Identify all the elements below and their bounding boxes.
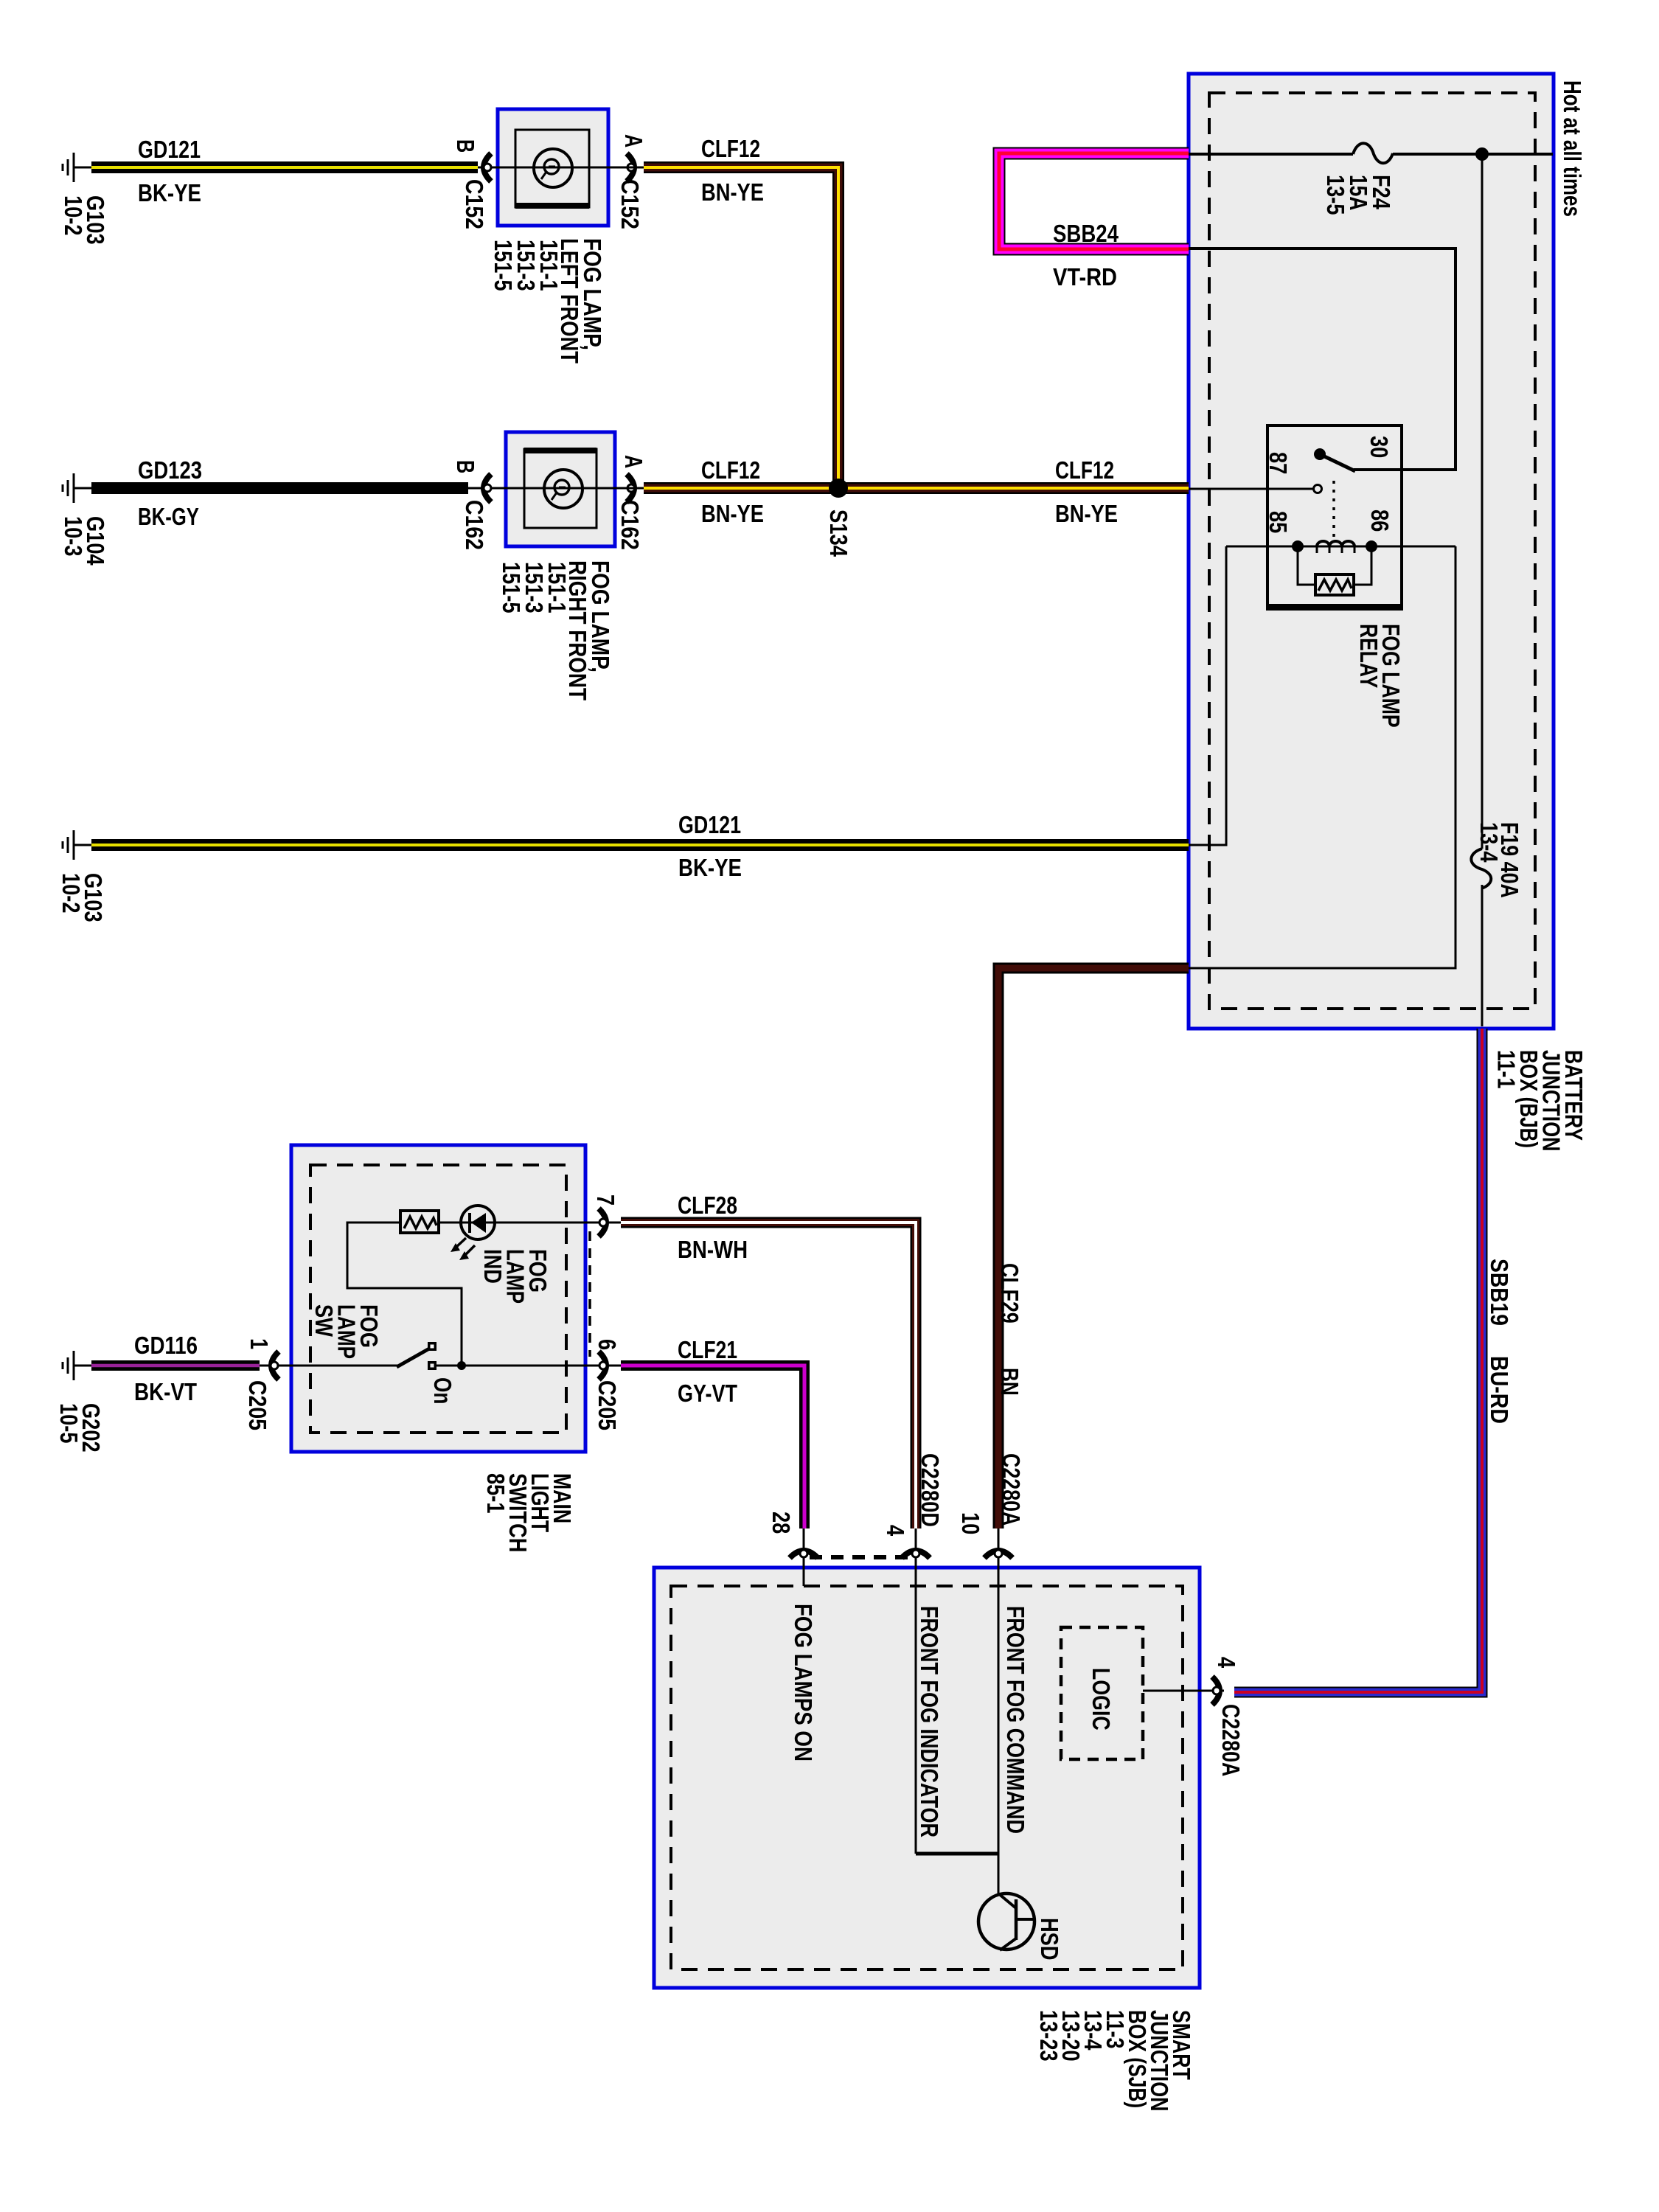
pin 1 lead and arrow	[260, 1365, 291, 1367]
svg-text:6: 6	[594, 1339, 621, 1350]
svg-text:B: B	[452, 460, 479, 473]
svg-text:BN-YE: BN-YE	[701, 178, 764, 206]
SJB pin 28 lead and arrow	[803, 1528, 805, 1586]
relay coil	[1317, 541, 1354, 546]
dashed connector line C205	[588, 1231, 591, 1357]
connector arrow B C162	[484, 474, 491, 502]
transistor HSD	[978, 1893, 1034, 1950]
svg-text:CLF12: CLF12	[701, 456, 760, 484]
connector arrow A C152	[627, 153, 634, 181]
svg-text:Hot at all times: Hot at all times	[1559, 80, 1586, 217]
wire thin lead at connector B C152	[478, 167, 498, 169]
svg-text:HSD: HSD	[1036, 1918, 1063, 1961]
ground G103 (top left)	[63, 153, 91, 182]
junction node in BJB	[1475, 147, 1489, 161]
lamp symbol left front	[534, 149, 572, 187]
svg-text:C162: C162	[616, 500, 644, 550]
ground G103 (third row)	[63, 830, 91, 860]
svg-text:151-1151-3151-5: 151-1151-3151-5	[498, 562, 571, 613]
svg-text:C162: C162	[461, 500, 488, 550]
svg-text:BN-YE: BN-YE	[701, 500, 764, 527]
svg-text:CLF12: CLF12	[1055, 456, 1114, 484]
svg-text:GD121: GD121	[138, 136, 201, 163]
SJB inner dashed border	[671, 1586, 1183, 1969]
svg-text:FOG LAMPS ON: FOG LAMPS ON	[790, 1604, 817, 1761]
svg-text:VT-RD: VT-RD	[1053, 263, 1117, 291]
main light switch box outline	[291, 1145, 585, 1452]
svg-text:FRONT FOG INDICATOR: FRONT FOG INDICATOR	[916, 1606, 943, 1837]
svg-text:On: On	[429, 1377, 456, 1404]
wire SBB24 VT-RD loop	[999, 153, 1189, 249]
svg-text:FOG LAMP,LEFT FRONT: FOG LAMP,LEFT FRONT	[556, 238, 606, 364]
battery junction box (BJB) outline	[1189, 74, 1554, 1029]
svg-text:C2280D: C2280D	[917, 1453, 944, 1527]
fog lamp left front inner square	[515, 130, 589, 207]
SJB pin 4 lead and arrow	[915, 1528, 917, 1854]
fuse F19 symbol	[1471, 849, 1491, 888]
svg-text:BN: BN	[996, 1368, 1023, 1396]
SBB24 line inside BJB to relay pin 30	[1189, 248, 1455, 470]
fog lamp switch pivot	[428, 1342, 437, 1351]
wire GD121 BK-YE (long, to BJB)	[91, 839, 1189, 851]
SJB pin 10 lead and arrow	[998, 1528, 1000, 1893]
svg-text:BK-YE: BK-YE	[138, 179, 201, 206]
svg-text:4: 4	[882, 1525, 909, 1537]
splice S134	[829, 479, 848, 498]
svg-text:10: 10	[957, 1512, 984, 1534]
svg-text:BN-YE: BN-YE	[1055, 500, 1118, 527]
wire GD123 BK-GY	[91, 482, 468, 494]
wire CLF28 BN-WH	[621, 1222, 916, 1528]
svg-text:SBB24: SBB24	[1053, 220, 1119, 247]
wire thin lead at connector B C162	[468, 487, 506, 490]
svg-text:CLF29: CLF29	[996, 1263, 1023, 1324]
svg-text:BK-YE: BK-YE	[678, 854, 742, 881]
fog lamp relay box	[1267, 425, 1402, 609]
main light switch inner dashed border	[310, 1165, 566, 1433]
relay suppression resistor wiring	[1298, 546, 1371, 585]
svg-text:S134: S134	[825, 509, 852, 557]
svg-text:SBB19: SBB19	[1486, 1259, 1513, 1326]
ground G202	[63, 1351, 91, 1380]
svg-text:4: 4	[1213, 1657, 1240, 1669]
LOGIC output line to pin 4	[1143, 1690, 1224, 1692]
fog lamp switch output line	[437, 1365, 585, 1367]
svg-text:BK-GY: BK-GY	[138, 503, 199, 530]
fog lamp right front inner square	[524, 449, 597, 528]
pin 6 lead and arrow	[585, 1365, 621, 1367]
relay coil junction dots	[1292, 540, 1304, 552]
svg-text:1: 1	[246, 1338, 273, 1349]
relay switch pivot	[1314, 448, 1326, 460]
relay actuator dotted line	[1332, 481, 1335, 540]
wire CLF29 BN from BJB to SJB	[998, 968, 1189, 1528]
wire SBB19 BU-RD from BJB to SJB pin 4	[1234, 1029, 1482, 1692]
svg-text:CLF28: CLF28	[678, 1192, 737, 1219]
svg-text:BN-WH: BN-WH	[678, 1236, 748, 1263]
lamp symbol right front	[544, 470, 582, 508]
fog lamp sw indicator loop wire	[347, 1222, 462, 1366]
svg-text:GY-VT: GY-VT	[678, 1380, 737, 1407]
svg-text:LOGIC: LOGIC	[1088, 1668, 1115, 1731]
wire through left fog lamp	[498, 167, 609, 169]
connector arrow B C152	[484, 153, 491, 181]
fog lamp switch blade	[397, 1348, 431, 1367]
front fog indicator to command link	[916, 1852, 998, 1856]
fog lamp ind LED	[461, 1206, 495, 1239]
fog lamp left front box	[498, 109, 608, 226]
relay suppression resistor	[1315, 574, 1354, 595]
svg-text:B: B	[452, 139, 479, 153]
svg-text:151-1151-3151-5: 151-1151-3151-5	[490, 240, 563, 291]
wire GD116 BK-VT	[91, 1360, 260, 1371]
svg-text:A: A	[620, 134, 647, 147]
LOGIC dashed box	[1061, 1627, 1143, 1759]
fog lamp right front box	[506, 432, 615, 546]
svg-text:C205: C205	[594, 1380, 621, 1430]
svg-text:GD121: GD121	[678, 811, 741, 838]
fuse F24 circuit line	[1189, 153, 1553, 156]
wire CLF12 BN-YE from A C162 to BJB	[644, 482, 1189, 494]
svg-text:C152: C152	[461, 179, 488, 229]
fog lamp ind resistor	[400, 1211, 439, 1233]
svg-text:86: 86	[1366, 509, 1394, 532]
pin 7 lead and arrow	[585, 1222, 621, 1224]
fog lamp switch input line	[291, 1365, 398, 1367]
relay contact 87	[1314, 485, 1322, 493]
svg-text:30: 30	[1366, 436, 1393, 458]
svg-text:BU-RD: BU-RD	[1486, 1356, 1513, 1424]
relay coil line pins 85-86	[1226, 546, 1455, 548]
relay switch blade	[1320, 454, 1355, 471]
wire through right fog lamp	[506, 487, 615, 490]
svg-text:BK-VT: BK-VT	[134, 1378, 197, 1405]
fuse F19 circuit line	[1481, 154, 1484, 1026]
svg-text:CLF12: CLF12	[701, 135, 760, 162]
wire CLF12 BN-YE from A C152 down to S134	[644, 167, 838, 481]
svg-text:GD116: GD116	[134, 1332, 198, 1359]
ground G104 (second row)	[63, 473, 91, 503]
svg-text:A: A	[620, 455, 647, 468]
connector arrow A C162	[627, 474, 634, 502]
pin 85 line to GD121	[1189, 546, 1226, 845]
fog lamp switch On contact	[428, 1361, 437, 1370]
svg-text:85: 85	[1265, 511, 1292, 533]
svg-text:28: 28	[768, 1512, 795, 1534]
wire GD121 BK-YE (top left)	[91, 161, 478, 173]
svg-text:FRONT FOG COMMAND: FRONT FOG COMMAND	[1002, 1606, 1029, 1834]
fuse F24 symbol	[1353, 143, 1393, 163]
dashed connector line C2280	[810, 1555, 910, 1559]
junction dot switch/indicator	[457, 1361, 466, 1370]
pin 86 line to CLF29	[1189, 546, 1455, 968]
svg-text:C2280A: C2280A	[1217, 1704, 1245, 1776]
svg-text:F2415A13-5: F2415A13-5	[1322, 175, 1395, 215]
svg-text:C2280A: C2280A	[998, 1453, 1025, 1526]
svg-text:87: 87	[1265, 452, 1292, 474]
svg-text:CLF21: CLF21	[678, 1336, 737, 1363]
svg-text:C152: C152	[616, 179, 644, 229]
wire lead to relay pin 87	[1189, 488, 1313, 490]
svg-text:GD123: GD123	[138, 456, 202, 484]
wire CLF21 GY-VT	[621, 1366, 804, 1528]
BJB-SJB pin 4 arrow C2280A	[1212, 1677, 1220, 1705]
wire from resistor through LED to pin 7	[439, 1222, 585, 1224]
smart junction box (SJB) outline	[654, 1568, 1200, 1988]
svg-text:C205: C205	[244, 1380, 271, 1430]
svg-text:7: 7	[592, 1194, 619, 1206]
BJB inner dashed border	[1209, 93, 1535, 1009]
